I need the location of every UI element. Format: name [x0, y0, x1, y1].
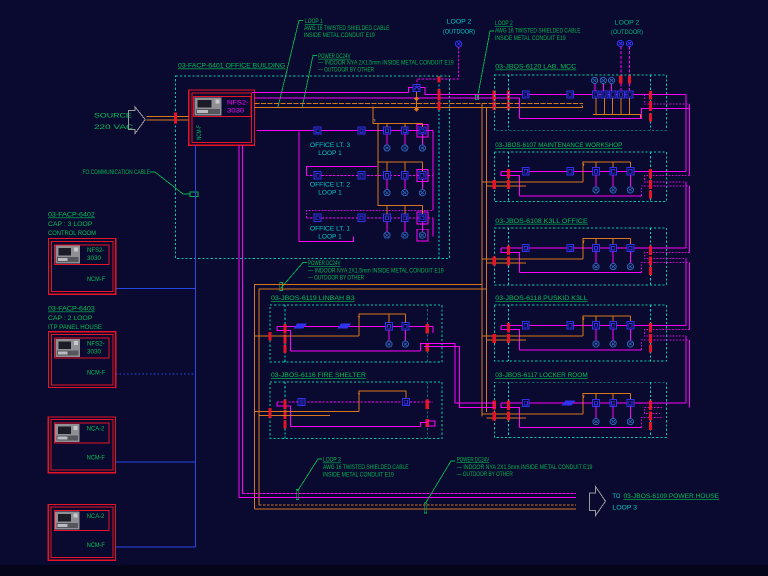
svg-text:03-JBOS-6116 FIRE SHELTER: 03-JBOS-6116 FIRE SHELTER — [271, 372, 366, 379]
svg-text:POWER DC24V: POWER DC24V — [308, 260, 341, 267]
junction loop2 riser b at box — [628, 76, 631, 84]
wire 03-JBOS-6120 LAB MCC d1 power stub — [595, 98, 597, 114]
module 03-JBOS-6108 K3LL OFFICE m1 — [522, 244, 529, 251]
leader fo cable — [150, 172, 190, 194]
wire 03-JBOS-6108 K3LL OFFICE slc row — [501, 247, 686, 249]
wire office dc24 feed lt2 — [378, 123, 423, 171]
wire 03-JBOS-6118 PUSKID K3LL slc entry2 — [644, 330, 689, 336]
horn circle loop2 left — [455, 41, 461, 47]
svg-text:CAP : 2 LOOP: CAP : 2 LOOP — [48, 315, 92, 322]
wire 03-JBOS-6117 LOCKER ROOM d1 stub — [595, 407, 597, 419]
svg-text:NCA-2: NCA-2 — [87, 426, 105, 433]
wire bracket maintenance-k3ll a — [685, 182, 687, 248]
svg-text:03-JBOS-6118 PUSKID K3LL: 03-JBOS-6118 PUSKID K3LL — [495, 295, 588, 302]
wire 03-JBOS-6118 PUSKID K3LL slc row — [501, 324, 686, 326]
wire 03-JBOS-6117 LOCKER ROOM slc return — [520, 427, 642, 429]
arrow to power house — [590, 487, 606, 515]
junction 03-JBOS-6107 MAINTENANCE WORKSHOP right inner slc — [649, 169, 652, 179]
module 03-JBOS-6120 LAB MCC m2 — [567, 91, 574, 98]
wire slc M1 module jog — [408, 87, 494, 94]
svg-text:220 VAC: 220 VAC — [94, 124, 134, 131]
wire office lt3 d3 stub — [421, 134, 423, 145]
wire 03-JBOS-6119 LINBAH B3 dc24 feed — [255, 314, 406, 336]
bell 03-JBOS-6107 MAINTENANCE WORKSHOP b1 — [593, 187, 599, 193]
junction 03-JBOS-6108 K3LL OFFICE left edge power — [493, 257, 496, 266]
module monitor M on slc — [413, 84, 420, 91]
bell 03-JBOS-6120 LAB MCC b3 — [608, 77, 614, 83]
panel FACP-6403 keypad — [55, 339, 80, 357]
svg-text:03-JBOS-6108 K3LL OFFICE: 03-JBOS-6108 K3LL OFFICE — [495, 218, 588, 225]
module 03-JBOS-6120 LAB MCC m1 — [522, 91, 529, 98]
beam detector 03-JBOS-6117 LOCKER ROOM — [562, 400, 576, 405]
svg-text:— OUTDOOR BY OTHER: — OUTDOOR BY OTHER — [457, 471, 513, 478]
wire 03-JBOS-6108 K3LL OFFICE d1 stub — [595, 252, 597, 264]
junction 03-JBOS-6116 FIRE SHELTER left inner ret — [284, 420, 287, 428]
note power dc24v mid tick — [280, 283, 283, 291]
wire 03-JBOS-6120 LAB MCC slc entry — [494, 94, 686, 118]
svg-text:TO: TO — [612, 493, 620, 500]
svg-text:— OUTDOOR BY OTHER: — OUTDOOR BY OTHER — [318, 66, 374, 73]
boundary 03-JBOS-6116 FIRE SHELTER left — [284, 382, 286, 438]
wire bracket maintenance-k3ll b — [689, 186, 691, 253]
boundary 03-JBOS-6118 PUSKID K3LL right — [650, 305, 652, 361]
wire 03-JBOS-6107 MAINTENANCE WORKSHOP slc row — [501, 170, 686, 172]
panel FACP-6401 outer — [189, 90, 255, 145]
bell office lt1 b1 — [384, 232, 390, 238]
wire office lt2 d2 stub — [404, 179, 406, 190]
junction 03-JBOS-6120 LAB MCC right inner slc — [649, 91, 652, 100]
svg-text:LOOP 3: LOOP 3 — [612, 505, 637, 512]
detector 03-JBOS-6120 LAB MCC d2 — [601, 91, 608, 98]
svg-text:— INDOOR NYA 2X1.5mm INSIDE M: — INDOOR NYA 2X1.5mm INSIDE METAL CONDUI… — [308, 267, 444, 274]
wire office lt2 d3 stub — [421, 179, 423, 190]
junction 03-JBOS-6117 LOCKER ROOM left inner slc — [507, 401, 510, 411]
svg-text:LOOP 1: LOOP 1 — [318, 150, 342, 157]
svg-text:OFFICE LT. 1: OFFICE LT. 1 — [310, 226, 351, 233]
detector office lt3 d1 — [384, 127, 391, 134]
detector 03-JBOS-6108 K3LL OFFICE d1 — [593, 244, 600, 251]
junction 03-JBOS-6120 LAB MCC right inner ret — [649, 114, 652, 122]
wire 03-JBOS-6107 MAINTENANCE WORKSHOP slc hook — [501, 171, 519, 196]
panel FACP-6402 outer — [49, 239, 116, 295]
bell 03-JBOS-6107 MAINTENANCE WORKSHOP b3 — [627, 187, 633, 193]
wire 03-JBOS-6119 LINBAH B3 b1 stub — [388, 330, 390, 341]
junction 03-JBOS-6118 PUSKID K3LL right inner ret — [649, 344, 652, 352]
svg-text:NFS2-: NFS2- — [227, 100, 249, 107]
detector 03-JBOS-6120 LAB MCC d4 — [618, 91, 625, 98]
wire 03-JBOS-6120 LAB MCC b3 stub — [611, 83, 613, 91]
bell 03-JBOS-6108 K3LL OFFICE b2 — [610, 264, 616, 270]
detector 03-JBOS-6117 LOCKER ROOM d3 — [627, 399, 634, 406]
svg-text:03-JBOS-6119 LINBAH B3: 03-JBOS-6119 LINBAH B3 — [271, 295, 355, 302]
wire 03-JBOS-6119 LINBAH B3 slc return — [291, 350, 421, 352]
wire dc24 bottom bus b — [255, 508, 576, 510]
svg-text:03-FACP-6402: 03-FACP-6402 — [48, 212, 95, 219]
arrowhead 03-JBOS-6120 LAB MCC power — [580, 104, 584, 108]
svg-text:03-FACP-6403: 03-FACP-6403 — [48, 306, 95, 313]
bell frame office lt1 — [417, 229, 428, 241]
junction bus dotted at boundary — [438, 77, 441, 83]
svg-text:INSIDE METAL CONDUIT E19: INSIDE METAL CONDUIT E19 — [495, 35, 566, 42]
wire 03-JBOS-6108 K3LL OFFICE dc24 entry — [482, 259, 583, 263]
arrowhead 03-JBOS-6117 LOCKER ROOM power — [582, 394, 586, 398]
wire lt rows right link — [432, 131, 434, 237]
wire 03-JBOS-6107 MAINTENANCE WORKSHOP d1 stub — [595, 175, 597, 187]
detector 03-JBOS-6107 MAINTENANCE WORKSHOP d1 — [593, 168, 600, 175]
wire fo tap facp-6403 dotted — [116, 373, 196, 375]
detector 03-JBOS-6108 K3LL OFFICE d3 — [627, 244, 634, 251]
wire dc24 trunk right — [482, 104, 486, 417]
junction 03-JBOS-6107 MAINTENANCE WORKSHOP left edge power — [493, 180, 496, 189]
junction bus M1 at boundary — [438, 89, 441, 101]
wire 03-JBOS-6117 LOCKER ROOM dc24 top feed — [583, 394, 630, 414]
detector office lt3 d3 — [419, 127, 426, 134]
wire bracket lab-maintenance a — [685, 94, 687, 171]
boundary 03-JBOS-6108 K3LL OFFICE left — [508, 228, 510, 285]
note loop3 leader — [298, 459, 323, 491]
wire 03-JBOS-6117 LOCKER ROOM d3 stub — [629, 407, 631, 419]
wire office lt1 d3 stub — [421, 221, 423, 232]
wire bracket lab-maintenance b — [689, 104, 691, 175]
wire 03-JBOS-6108 K3LL OFFICE slc entry2 — [644, 252, 689, 258]
wire bracket k3ll-puskid b — [689, 263, 691, 330]
detector office lt1 d3 — [419, 214, 426, 221]
wire fo tap facp-6402 — [116, 288, 196, 290]
bell 03-JBOS-6120 LAB MCC b2 — [600, 77, 606, 83]
detector frame 03-JBOS-6116 FIRE SHELTER d1 — [298, 398, 305, 405]
svg-text:CAP : 3 LOOP: CAP : 3 LOOP — [48, 221, 92, 228]
module 03-JBOS-6108 K3LL OFFICE m2 — [567, 244, 574, 251]
bell 03-JBOS-6117 LOCKER ROOM b2 — [610, 419, 616, 425]
junction 03-JBOS-6117 LOCKER ROOM left inner power — [507, 412, 510, 421]
enclosure office building — [176, 76, 450, 258]
module office lt1 m2 — [358, 214, 365, 221]
junction 03-JBOS-6119 LINBAH B3 right inner slc — [426, 324, 429, 334]
bell 03-JBOS-6118 PUSKID K3LL b3 — [627, 341, 633, 347]
wire 03-JBOS-6116 FIRE SHELTER slc return — [291, 426, 421, 428]
junction 03-JBOS-6119 LINBAH B3 right inner ret — [426, 343, 429, 351]
junction dot module tap b — [414, 107, 419, 112]
junction linbah left edge power — [268, 332, 271, 341]
module office lt3 m2 — [358, 127, 365, 134]
svg-text:LOOP 2: LOOP 2 — [615, 19, 640, 26]
wire office lt3 d2 stub — [404, 134, 406, 145]
wire 03-JBOS-6120 LAB MCC b2 stub — [603, 83, 605, 91]
module frame office lt1 — [417, 212, 428, 224]
junction box 03-JBOS-6107 MAINTENANCE WORKSHOP — [494, 152, 666, 202]
detector office lt2 d1 — [384, 172, 391, 179]
wire 03-JBOS-6107 MAINTENANCE WORKSHOP slc exit2 — [641, 186, 689, 196]
junction 03-JBOS-6117 LOCKER ROOM right inner ret — [649, 422, 652, 430]
module 03-JBOS-6118 PUSKID K3LL m1 — [522, 322, 529, 329]
junction bus M at lab edge — [493, 91, 496, 101]
module 03-JBOS-6107 MAINTENANCE WORKSHOP m2 — [567, 168, 574, 175]
panel FACP-6401 device frame — [194, 97, 251, 117]
junction 03-JBOS-6107 MAINTENANCE WORKSHOP left inner power — [507, 180, 510, 189]
junction box 03-JBOS-6118 PUSKID K3LL — [494, 305, 666, 361]
wire 03-JBOS-6118 PUSKID K3LL slc hook — [501, 325, 519, 350]
boundary 03-JBOS-6117 LOCKER ROOM right — [650, 382, 652, 437]
arrowhead 03-JBOS-6119 LINBAH B3 power — [357, 315, 361, 319]
bell 03-JBOS-6108 K3LL OFFICE b3 — [627, 264, 633, 270]
wire 03-JBOS-6107 MAINTENANCE WORKSHOP d2 stub — [612, 175, 614, 187]
wire 03-JBOS-6120 LAB MCC d3 power stub — [612, 98, 614, 114]
junction 03-JBOS-6118 PUSKID K3LL left inner slc — [507, 323, 510, 333]
wire 03-JBOS-6116 FIRE SHELTER slc exit hook — [420, 421, 435, 427]
wire 03-JBOS-6120 LAB MCC d5 power stub — [629, 98, 631, 114]
svg-text:03-JBOS-6117 LOCKER ROOM: 03-JBOS-6117 LOCKER ROOM — [495, 372, 587, 379]
wire 03-JBOS-6108 K3LL OFFICE dc24 top feed — [583, 239, 630, 259]
svg-text:ITP PANEL HOUSE: ITP PANEL HOUSE — [48, 324, 103, 331]
wire 03-JBOS-6118 PUSKID K3LL dc24 top feed — [583, 316, 630, 336]
detector 03-JBOS-6118 PUSKID K3LL d2 — [610, 322, 617, 329]
panel FACP-6401 keypad — [195, 97, 222, 115]
bell 03-JBOS-6108 K3LL OFFICE b1 — [593, 264, 599, 270]
wire 03-JBOS-6117 LOCKER ROOM d2 stub — [612, 407, 614, 419]
wire source power a — [147, 115, 189, 117]
boundary 03-JBOS-6116 FIRE SHELTER right — [426, 382, 428, 438]
wire office lt1 d1 stub — [386, 221, 388, 232]
wire fo tap nca-2 — [116, 546, 196, 548]
svg-text:NCM-F: NCM-F — [87, 369, 105, 376]
detector 03-JBOS-6119 LINBAH B3 d2 — [402, 323, 409, 330]
note loop3 tick — [296, 490, 299, 500]
svg-text:NCM-F: NCM-F — [87, 542, 105, 549]
bell 03-JBOS-6117 LOCKER ROOM b3 — [627, 419, 633, 425]
panel NCA-1 inner — [51, 420, 113, 470]
junction 03-JBOS-6107 MAINTENANCE WORKSHOP right inner ret — [649, 190, 652, 198]
wire office dc24 feed lt1 — [378, 162, 423, 214]
svg-text:03-JBOS-6120 LAB. MCC: 03-JBOS-6120 LAB. MCC — [495, 64, 576, 71]
beam detector 03-JBOS-6119 LINBAH B3 rx — [337, 324, 351, 329]
wire 03-JBOS-6120 LAB MCC b1 stub — [594, 83, 596, 91]
junction 03-JBOS-6116 FIRE SHELTER left inner slc — [284, 399, 287, 409]
boundary 03-JBOS-6118 PUSKID K3LL left — [508, 305, 510, 361]
wire 03-JBOS-6116 FIRE SHELTER slc hook — [277, 402, 291, 427]
wire 03-JBOS-6119 LINBAH B3 slc row — [277, 325, 433, 327]
svg-text:3030: 3030 — [227, 108, 245, 115]
wire 03-JBOS-6119 LINBAH B3 slc hook — [277, 326, 291, 351]
svg-text:3030: 3030 — [87, 255, 102, 262]
panel NCA-2 outer — [48, 504, 115, 560]
enclosure office inner boundary — [438, 76, 440, 258]
note power dc24v mid leader — [281, 263, 307, 289]
wire office lt3 slc row — [257, 130, 433, 132]
wire 03-JBOS-6118 PUSKID K3LL slc exit2 — [641, 340, 689, 350]
junction locker left edge slc — [493, 401, 496, 410]
junction 03-JBOS-6108 K3LL OFFICE right inner slc — [649, 246, 652, 256]
wire slc M2 bus — [254, 97, 519, 99]
junction 03-JBOS-6116 FIRE SHELTER left inner power — [284, 410, 287, 419]
junction 03-JBOS-6107 MAINTENANCE WORKSHOP left inner slc — [507, 169, 510, 179]
detector 03-JBOS-6108 K3LL OFFICE d2 — [610, 244, 617, 251]
panel NCA-2 keypad — [55, 511, 80, 529]
panel FACP-6403 outer — [49, 332, 116, 388]
bell office lt2 b2 — [402, 190, 408, 196]
note power dc24v top leader — [302, 56, 317, 109]
svg-text:OFFICE LT. 3: OFFICE LT. 3 — [310, 142, 351, 149]
beam detector 03-JBOS-6119 LINBAH B3 tx — [293, 324, 307, 329]
wire lt2 entry bend — [306, 167, 377, 176]
boundary 03-JBOS-6117 LOCKER ROOM left — [508, 382, 510, 437]
wire 03-JBOS-6117 LOCKER ROOM slc entry2 — [644, 407, 662, 413]
bell 03-JBOS-6118 PUSKID K3LL b1 — [593, 341, 599, 347]
svg-text:LOOP 1: LOOP 1 — [318, 234, 342, 241]
panel FACP-6403 inner — [51, 335, 113, 385]
wire loop2 riser a — [620, 47, 622, 91]
note power dc24v bottom leader — [426, 461, 455, 503]
wire office lt1 slc row — [306, 217, 433, 219]
wire 03-JBOS-6119 LINBAH B3 slc exit pair — [420, 326, 494, 407]
wire 03-JBOS-6117 LOCKER ROOM dc24 entry — [482, 414, 583, 418]
wire source power b — [147, 119, 189, 121]
detector 03-JBOS-6107 MAINTENANCE WORKSHOP d3 — [627, 168, 634, 175]
note loop2 leader — [477, 31, 494, 100]
note loop1 leader — [278, 21, 303, 108]
svg-text:SOURCE: SOURCE — [94, 113, 132, 120]
junction 03-JBOS-6117 LOCKER ROOM right inner mid — [649, 412, 652, 421]
wire 03-JBOS-6118 PUSKID K3LL d2 stub — [612, 329, 614, 341]
wire loop2 left drop — [417, 47, 459, 84]
arrowhead 03-JBOS-6108 K3LL OFFICE power — [582, 239, 586, 243]
svg-text:NCM-F: NCM-F — [87, 454, 105, 461]
boundary 03-JBOS-6108 K3LL OFFICE right — [650, 228, 652, 285]
wire 03-JBOS-6118 PUSKID K3LL d3 stub — [629, 329, 631, 341]
junction 03-JBOS-6117 LOCKER ROOM right inner slc — [649, 401, 652, 411]
detector 03-JBOS-6117 LOCKER ROOM d2 — [610, 399, 617, 406]
wire 03-JBOS-6117 LOCKER ROOM slc row — [501, 402, 686, 404]
detector office lt1 d1 — [384, 214, 391, 221]
wire 03-JBOS-6118 PUSKID K3LL dc24 entry — [482, 336, 583, 340]
detector 03-JBOS-6116 FIRE SHELTER d2 — [403, 398, 410, 405]
svg-text:INSIDE METAL CONDUIT E19: INSIDE METAL CONDUIT E19 — [323, 471, 394, 478]
junction 03-JBOS-6116 FIRE SHELTER right inner slc — [426, 399, 429, 409]
leader fo cable tick — [190, 192, 198, 197]
detector 03-JBOS-6117 LOCKER ROOM d1 — [593, 399, 600, 406]
arrowhead 03-JBOS-6107 MAINTENANCE WORKSHOP power — [582, 162, 586, 166]
svg-text:NFS2-: NFS2- — [87, 247, 105, 254]
svg-text:OFFICE LT. 2: OFFICE LT. 2 — [310, 182, 351, 189]
wire power dc24 bus a — [254, 103, 583, 105]
bell office lt3 b1 — [384, 145, 390, 151]
junction 03-JBOS-6116 FIRE SHELTER right inner ret — [426, 419, 429, 427]
arrowhead 03-JBOS-6116 FIRE SHELTER power — [357, 392, 361, 396]
wire power dc24 bus b — [254, 106, 583, 108]
wire office lt2 d1 stub — [386, 179, 388, 190]
wire 03-JBOS-6108 K3LL OFFICE d3 stub — [629, 252, 631, 264]
arrow source 220vac — [129, 107, 146, 134]
svg-text:LOOP 2: LOOP 2 — [447, 19, 472, 26]
wire office lt2 slc row — [306, 174, 433, 176]
wire lt1 entry bend — [306, 211, 433, 218]
module 03-JBOS-6117 LOCKER ROOM m1 — [522, 399, 529, 406]
bell office lt2 b3 — [419, 190, 425, 196]
junction 03-JBOS-6108 K3LL OFFICE left inner power — [507, 257, 510, 266]
svg-text:LOOP 2: LOOP 2 — [495, 20, 513, 27]
bell 03-JBOS-6107 MAINTENANCE WORKSHOP b2 — [610, 187, 616, 193]
wire 03-JBOS-6108 K3LL OFFICE d2 stub — [612, 252, 614, 264]
svg-text:(OUTDOOR): (OUTDOOR) — [443, 29, 475, 36]
junction 03-JBOS-6120 LAB MCC right inner slc2 — [649, 101, 652, 111]
junction box 03-JBOS-6116 FIRE SHELTER — [270, 382, 442, 438]
panel NCA-2 inner — [51, 507, 113, 557]
bell office lt3 b3 — [419, 145, 425, 151]
junction loop2 riser a at box — [619, 76, 622, 84]
bell 03-JBOS-6119 LINBAH B3 b2 — [402, 341, 408, 347]
wire 03-JBOS-6119 LINBAH B3 b2 stub — [404, 330, 406, 341]
bell office lt3 b2 — [402, 145, 408, 151]
wire 03-JBOS-6117 LOCKER ROOM slc exit2 — [641, 418, 662, 428]
junction 03-JBOS-6119 LINBAH B3 left inner slc — [284, 324, 287, 334]
junction dot module tap a — [414, 96, 419, 101]
wire 03-JBOS-6118 PUSKID K3LL slc return — [520, 349, 642, 351]
svg-text:AWG 16 TWISTED SHIELDED CABLE: AWG 16 TWISTED SHIELDED CABLE — [304, 25, 390, 32]
module office lt1 m1 — [314, 214, 321, 221]
wire 03-JBOS-6120 LAB MCC slc return — [520, 109, 690, 119]
junction 03-JBOS-6117 LOCKER ROOM left edge power — [493, 412, 496, 421]
wire 03-JBOS-6107 MAINTENANCE WORKSHOP dc24 entry — [482, 182, 583, 186]
wire office dc24 feed lt3 — [373, 107, 422, 128]
wire dc24 bottom bus a — [259, 504, 576, 506]
detector office lt3 d2 — [401, 127, 408, 134]
boundary 03-JBOS-6120 LAB MCC right — [650, 75, 652, 130]
junction 03-JBOS-6119 LINBAH B3 left inner ret — [284, 345, 287, 353]
horn circle loop2 right a — [617, 40, 623, 46]
bell 03-JBOS-6120 LAB MCC b1 — [592, 77, 598, 83]
bell office lt1 b2 — [402, 232, 408, 238]
wire loop2 riser b — [629, 47, 631, 91]
junction bus power at boundary — [438, 102, 441, 111]
detector 03-JBOS-6120 LAB MCC d3 — [609, 91, 616, 98]
junction box 03-JBOS-6120 LAB MCC — [494, 75, 666, 130]
note loop2 leader tick — [476, 95, 479, 100]
panel FACP-6402 device frame — [55, 245, 110, 265]
bell office lt2 b1 — [384, 190, 390, 196]
junction source at enclosure — [174, 113, 177, 124]
wire 03-JBOS-6108 K3LL OFFICE slc exit2 — [641, 263, 689, 273]
module office lt3 m1 — [314, 127, 321, 134]
junction box 03-JBOS-6117 LOCKER ROOM — [494, 382, 666, 437]
wire 03-JBOS-6118 PUSKID K3LL d1 stub — [595, 329, 597, 341]
wire 03-JBOS-6120 LAB MCC dc24 under-cluster — [593, 114, 641, 118]
horn circle loop2 right b — [626, 40, 632, 46]
wire 03-JBOS-6108 K3LL OFFICE slc hook — [501, 248, 519, 273]
wire 03-JBOS-6116 FIRE SHELTER dc24 feed — [255, 391, 406, 416]
svg-text:NFS2-: NFS2- — [87, 340, 105, 347]
panel FACP-6402 inner — [51, 241, 113, 291]
junction 03-JBOS-6108 K3LL OFFICE right inner mid — [649, 257, 652, 266]
svg-text:LOOP 3: LOOP 3 — [323, 457, 341, 464]
wire 03-JBOS-6107 MAINTENANCE WORKSHOP d3 stub — [629, 175, 631, 187]
wire slc M1 bus — [254, 92, 408, 94]
detector 03-JBOS-6118 PUSKID K3LL d1 — [593, 322, 600, 329]
wire 03-JBOS-6108 K3LL OFFICE slc return — [520, 272, 642, 274]
svg-text:(OUTDOOR): (OUTDOOR) — [611, 29, 643, 36]
boundary 03-JBOS-6119 LINBAH B3 left — [284, 305, 286, 362]
svg-text:03-FACP-6401 OFFICE BUILDING: 03-FACP-6401 OFFICE BUILDING — [178, 63, 285, 70]
junction 03-JBOS-6107 MAINTENANCE WORKSHOP right inner mid — [649, 180, 652, 189]
junction 03-JBOS-6118 PUSKID K3LL right inner slc — [649, 323, 652, 333]
arrowhead 03-JBOS-6118 PUSKID K3LL power — [582, 316, 586, 320]
wire dc24 riser pair left — [255, 285, 487, 509]
panel NCA-1 outer — [48, 417, 115, 473]
svg-text:NCM-F: NCM-F — [87, 276, 105, 283]
wire bracket puskid-locker b — [689, 340, 691, 408]
panel FACP-6401 inner — [192, 93, 252, 142]
module frame office lt3 — [417, 125, 428, 137]
junction 03-JBOS-6108 K3LL OFFICE left inner slc — [507, 246, 510, 256]
detector 03-JBOS-6120 LAB MCC d5 — [626, 91, 633, 98]
